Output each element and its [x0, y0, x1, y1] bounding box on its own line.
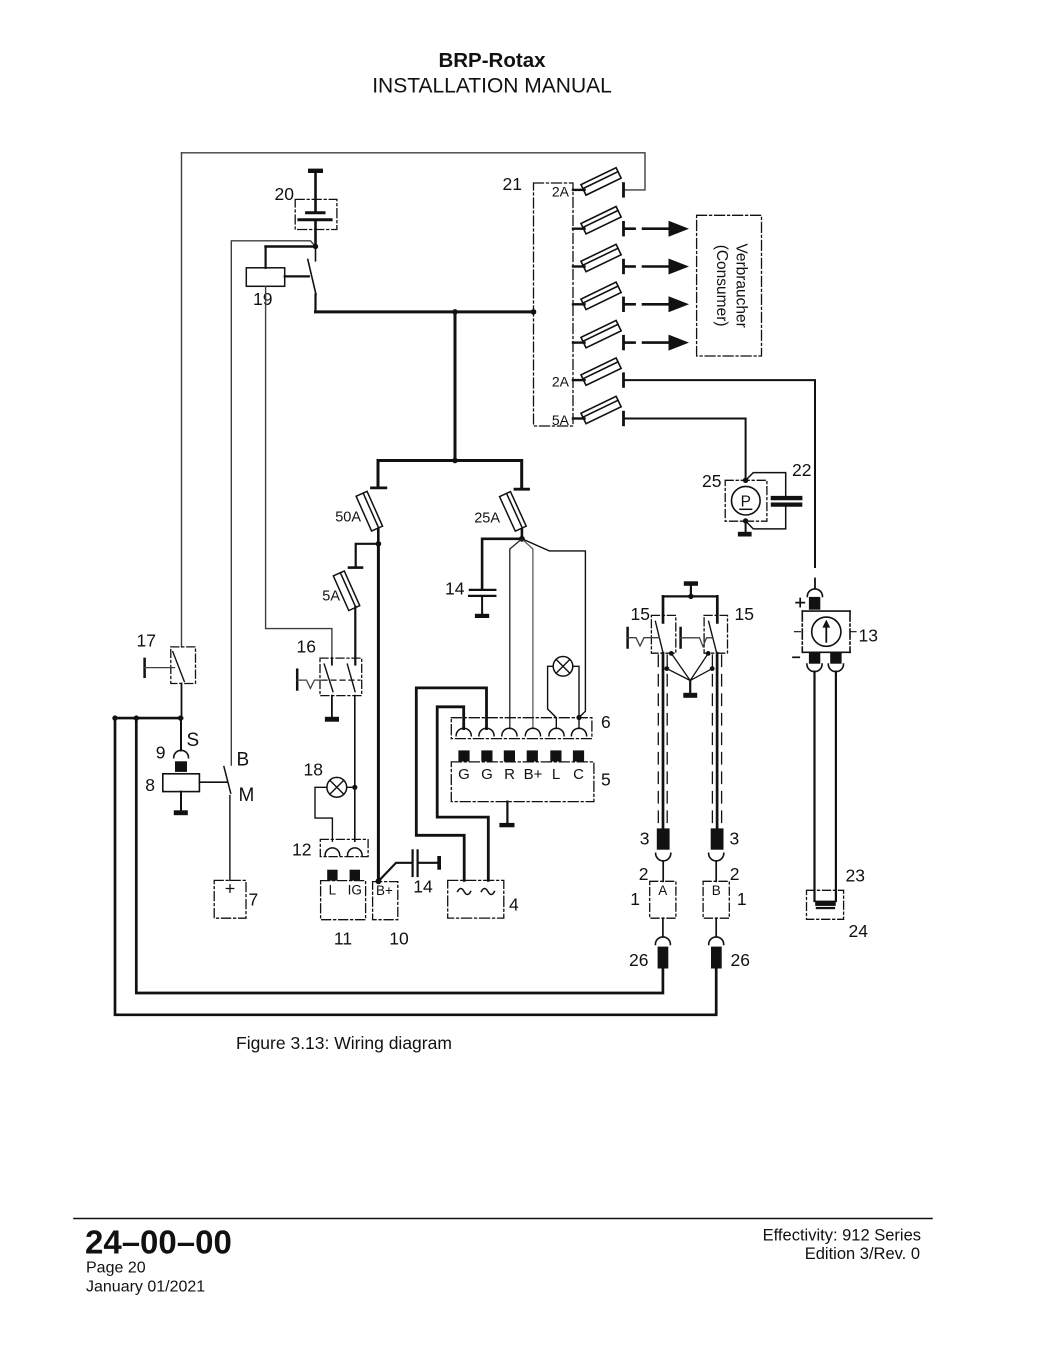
fuse F1 2A — [552, 168, 624, 200]
svg-text:2: 2 — [730, 864, 740, 884]
wire ignition top link — [663, 595, 717, 597]
ground hour meter — [738, 532, 752, 537]
svg-text:26: 26 — [731, 950, 750, 970]
label minus sensor 13 — [793, 656, 799, 658]
node ignition ground tee — [688, 594, 693, 599]
svg-text:4: 4 — [509, 895, 519, 915]
svg-text:1: 1 — [630, 889, 640, 909]
wire ignition ground stub — [690, 586, 692, 597]
sensor 13 centerline stubs — [795, 631, 858, 633]
wire socket 2 left to connector A — [662, 861, 664, 881]
svg-text:Edition 3/Rev. 0: Edition 3/Rev. 0 — [805, 1245, 920, 1263]
capacitor 14 plates — [470, 589, 495, 591]
svg-text:13: 13 — [859, 626, 878, 646]
wire shield ground stub — [689, 681, 691, 693]
fuse F7 5A — [552, 396, 624, 428]
lamp charge indicator circle — [553, 657, 573, 677]
svg-text:3: 3 — [640, 829, 650, 849]
svg-text:8: 8 — [145, 775, 155, 795]
switch 16 actuator bar — [296, 670, 299, 690]
wire dashed lead into sensor 13 — [814, 579, 816, 588]
svg-text:C: C — [573, 766, 584, 783]
battery 20 positive plate — [307, 211, 324, 214]
switch 17 dash-dot box — [171, 647, 196, 684]
sensor 13 body box — [802, 611, 850, 652]
relay 19 coil return wire to switch 16 — [266, 286, 332, 658]
svg-text:6: 6 — [601, 712, 611, 732]
svg-text:9: 9 — [156, 743, 166, 763]
svg-text:16: 16 — [297, 637, 316, 657]
wire switch 16 to connector 12 IG — [354, 696, 356, 842]
wire socket 2 right to connector B — [715, 861, 717, 881]
wire hour meter to capacitor 22 — [746, 473, 786, 496]
node distribution junction — [452, 458, 458, 464]
svg-text:24–00–00: 24–00–00 — [85, 1224, 232, 1261]
svg-text:19: 19 — [253, 289, 272, 309]
connector 12 socket contacts — [325, 848, 362, 855]
lamp 18 circle — [327, 777, 347, 797]
svg-text:Verbraucher(Consumer): Verbraucher(Consumer) — [713, 243, 750, 327]
pin 26 left — [658, 947, 669, 969]
switch 16 dash-dot box — [320, 658, 362, 696]
svg-text:A: A — [658, 883, 667, 898]
sensor 13 meter circle — [812, 617, 841, 646]
connector 6 dash-dot housing — [451, 718, 592, 739]
svg-text:5: 5 — [601, 770, 611, 790]
svg-text:M: M — [239, 785, 255, 806]
node battery minus junction — [313, 244, 318, 249]
switch 16 left blade — [324, 664, 333, 692]
hour meter 25 circle — [732, 486, 761, 515]
battery 20 negative plate — [299, 218, 331, 221]
connector 6 socket contacts — [456, 728, 586, 736]
connector 12 dash-dot housing — [320, 839, 368, 856]
sensor 13 top contact arc — [807, 589, 822, 597]
key switch blade B-M — [224, 767, 231, 794]
module 15 right actuator link — [681, 638, 712, 647]
wire connector A lower stub — [662, 918, 664, 937]
wire 5A output to switch 16 — [354, 607, 356, 665]
connector 5 dash-dot housing — [451, 762, 594, 802]
svg-text:50A: 50A — [335, 510, 361, 526]
relay 19 coil box — [246, 268, 284, 287]
wire branch to fuse 5A — [356, 544, 379, 567]
switch 16 right blade — [347, 664, 355, 692]
trim motor 24 dash-dot box — [807, 890, 844, 919]
switch 16 top left stub — [331, 658, 333, 665]
ignition module 15 right dash-dot box — [704, 615, 727, 653]
node lamp 18 junction — [352, 785, 357, 790]
svg-text:2A: 2A — [552, 374, 570, 390]
svg-text:26: 26 — [629, 950, 648, 970]
capacitor 22 plates — [773, 496, 800, 500]
sensor 13 arrow — [825, 626, 827, 642]
wire M to battery 7 — [229, 796, 231, 881]
svg-text:L: L — [329, 883, 337, 898]
wire ground bus lower — [115, 718, 716, 1015]
wire battery node to relay coil — [266, 245, 316, 248]
ground terminal above battery 20 — [308, 169, 323, 173]
footer chapter number — [85, 1224, 921, 1296]
starter 8 ground lead — [180, 792, 182, 811]
capacitor 14h terminal block — [437, 856, 441, 870]
ground shield drain — [683, 693, 697, 698]
pin 26 right — [711, 947, 722, 969]
starter 9 pin — [175, 761, 187, 772]
node shield taps — [669, 651, 674, 656]
regulator 4 dash-dot box — [448, 880, 504, 918]
svg-text:11: 11 — [334, 929, 352, 949]
battery 7 dash-dot box — [214, 880, 246, 918]
svg-text:24: 24 — [849, 921, 869, 941]
connector A dash-dot box — [650, 881, 676, 918]
svg-text:2A: 2A — [552, 183, 570, 199]
trim motor 24 bar — [815, 901, 836, 906]
node hour meter top — [743, 478, 748, 483]
capacitor 14h lead — [419, 862, 438, 864]
svg-text:R: R — [504, 766, 515, 783]
fuse 50A body — [356, 491, 382, 531]
svg-text:23: 23 — [846, 866, 865, 886]
wire right module feed — [716, 596, 719, 622]
relay 19 fixed contact stub — [315, 247, 317, 261]
contact arc above pin 26 right — [709, 937, 724, 944]
ground ignition top bar — [684, 581, 698, 586]
lamp cross — [556, 659, 570, 673]
header title — [372, 49, 612, 98]
svg-text:B+: B+ — [524, 766, 543, 783]
consumer box dash-dot — [697, 215, 762, 356]
svg-text:INSTALLATION MANUAL: INSTALLATION MANUAL — [372, 75, 612, 98]
svg-text:S: S — [187, 730, 200, 751]
relay 19 contact blade — [308, 260, 316, 295]
fuse F6 2A — [552, 358, 624, 390]
pin 3 left — [657, 828, 670, 849]
wire ground bus upper — [136, 718, 663, 993]
wire fan to connector R — [510, 539, 522, 729]
svg-text:10: 10 — [389, 929, 409, 949]
node row left — [112, 715, 117, 720]
wire to starter S — [180, 718, 182, 750]
relay 19 coil to contact link — [285, 275, 309, 277]
relay 19 coil feed — [265, 247, 267, 268]
ground switch 16 — [325, 717, 339, 722]
wire G2 to regulator — [416, 688, 486, 881]
trim motor 24 lower bar — [816, 907, 835, 909]
wire connector 5 ground lead — [506, 802, 508, 823]
fuse 25A terminal bar — [515, 488, 529, 491]
svg-text:7: 7 — [249, 890, 259, 910]
wire connector B lower stub — [715, 918, 717, 937]
connector B dash-dot box — [703, 881, 729, 918]
wire 50A output stub — [377, 529, 380, 544]
node bus to fuse block — [531, 309, 537, 315]
shield drain wires to ground — [667, 653, 712, 680]
switch 17 actuator link — [145, 667, 175, 669]
starter 8 solenoid box — [163, 774, 200, 792]
fuse F4 — [573, 282, 689, 312]
connector 5 terminal labels — [458, 766, 584, 783]
box 10 dash-dot — [373, 882, 398, 920]
wire distribution line — [378, 461, 522, 489]
wire lamp 18 right lead — [347, 786, 355, 788]
fuse 50A terminal bar — [372, 486, 386, 489]
label plus sensor 13 — [796, 599, 804, 607]
wire to capacitor 14 — [482, 539, 522, 589]
hour meter 25 dash-dot box — [725, 480, 767, 521]
sensor 13 bottom pins — [809, 652, 820, 663]
node 50A output junction — [376, 541, 382, 547]
svg-text:IG: IG — [348, 883, 362, 898]
node 25A output junction — [519, 536, 525, 542]
svg-text:15: 15 — [735, 604, 754, 624]
connector 5 pins — [458, 750, 584, 761]
svg-text:17: 17 — [137, 631, 156, 651]
wire 25A output stub — [521, 530, 524, 539]
wire main supply bus — [316, 310, 534, 313]
svg-text:B: B — [712, 883, 721, 898]
wire junction row — [115, 717, 182, 720]
wire left module feed — [662, 596, 665, 622]
fuse 5A body — [333, 571, 359, 611]
switch 16 actuator link with spring — [297, 680, 322, 688]
wire switch 17 to ground row — [181, 684, 183, 719]
wire hour meter ground stub — [745, 521, 747, 532]
node connector C junction — [576, 715, 581, 720]
svg-text:B+: B+ — [376, 883, 393, 898]
wire capacitor 22 return — [746, 507, 786, 529]
lamp 18 cross — [330, 780, 344, 794]
fuse block 21 dash-dot enclosure — [534, 183, 574, 426]
wire fuse F6 to sensor 13 — [624, 380, 815, 567]
contact arc above pin 26 left — [655, 937, 670, 944]
wire battery 20 bottom lead — [314, 220, 317, 247]
wire to ignition switch B terminal — [231, 241, 315, 765]
capacitor 14h plates — [412, 850, 414, 876]
ground capacitor 14 — [475, 614, 489, 618]
node row mid — [134, 715, 139, 720]
fuse 25A body — [500, 492, 527, 532]
svg-text:21: 21 — [503, 174, 522, 194]
footer rule — [74, 1218, 932, 1220]
regulator 4 AC symbols — [458, 889, 471, 895]
svg-text:G: G — [481, 766, 493, 783]
wire fan to lamp and connector C — [522, 539, 586, 717]
svg-text:L: L — [552, 766, 560, 783]
fuse F5 — [573, 320, 689, 350]
wire starter 8 to key switch — [199, 781, 226, 783]
node row right — [178, 715, 183, 720]
module 15 right blade — [709, 621, 717, 652]
svg-text:14: 14 — [445, 579, 465, 599]
shielded cable right shield dashes — [711, 655, 713, 827]
wire relay output — [314, 295, 316, 312]
node hour meter bottom — [743, 518, 748, 523]
svg-text:18: 18 — [304, 760, 323, 780]
wire sensor right lead down — [835, 672, 837, 901]
wire fan to connector B+ — [522, 539, 533, 729]
wire lamp 18 left loop to connector 12 — [315, 787, 332, 841]
fuse F3 — [573, 244, 689, 274]
fuse F2 — [573, 207, 689, 237]
svg-text:G: G — [458, 766, 470, 783]
socket 2 right — [709, 853, 724, 861]
wire lamp left lead to connector L — [548, 666, 557, 728]
connector 11 pins — [327, 870, 337, 881]
wire sensor left lead down — [813, 672, 815, 901]
switch 17 actuator bar — [143, 659, 146, 677]
shielded cable right core — [716, 653, 719, 828]
svg-text:2: 2 — [639, 864, 649, 884]
wire fuse F7 to hour meter 25 — [624, 419, 746, 481]
shielded cable left core — [662, 653, 665, 828]
node bus riser junction — [452, 309, 458, 315]
svg-text:5A: 5A — [552, 412, 570, 428]
shielded cable left shield dashes — [657, 655, 659, 827]
svg-text:B: B — [237, 750, 250, 771]
svg-text:Effectivity: 912 Series: Effectivity: 912 Series — [763, 1227, 921, 1245]
svg-text:Page 20: Page 20 — [86, 1260, 146, 1277]
wire riser to distribution — [454, 312, 457, 461]
svg-text:P: P — [741, 494, 751, 511]
switch 16 coupling dashed line — [322, 679, 360, 681]
svg-text:25A: 25A — [474, 511, 500, 527]
svg-text:BRP-Rotax: BRP-Rotax — [438, 49, 546, 72]
svg-text:20: 20 — [275, 184, 295, 204]
sensor 13 top pin — [809, 597, 820, 610]
battery 7 plus sign — [226, 885, 233, 892]
svg-text:1: 1 — [737, 889, 747, 909]
svg-text:25: 25 — [702, 471, 721, 491]
wire left frame down to switch 17 — [181, 153, 183, 647]
capacitor 14 ground lead — [481, 597, 483, 614]
svg-text:14: 14 — [413, 877, 433, 897]
socket 2 left — [656, 853, 671, 861]
svg-text:3: 3 — [730, 829, 740, 849]
wire to capacitor 14h — [378, 863, 411, 882]
ground starter 8 — [174, 810, 188, 815]
ignition module 15 left dash-dot box — [651, 615, 675, 653]
fuse 5A terminal bar — [349, 566, 362, 569]
wire battery 20 top lead — [314, 173, 317, 212]
wire top border frame — [182, 153, 646, 190]
module 15 left blade — [655, 621, 663, 652]
ground connector 5 — [499, 823, 514, 827]
module 15 left actuator bar — [626, 628, 629, 648]
svg-text:Figure 3.13: Wiring diagram: Figure 3.13: Wiring diagram — [236, 1033, 452, 1053]
starter 9 contact arc — [174, 750, 189, 757]
wire G1 to regulator — [437, 707, 488, 881]
svg-text:22: 22 — [792, 460, 811, 480]
switch 17 blade — [173, 652, 185, 682]
sensor 13 bottom socket arcs — [807, 664, 844, 672]
module 15 right actuator bar — [679, 628, 682, 648]
svg-text:5A: 5A — [322, 589, 340, 605]
svg-text:12: 12 — [292, 840, 311, 860]
node B+ at box 10 — [376, 878, 382, 884]
wire switch 16 left pole to ground — [331, 696, 333, 717]
battery 20 dash-dot enclosure — [295, 199, 337, 229]
box 11 dash-dot — [321, 881, 366, 920]
svg-text:January 01/2021: January 01/2021 — [86, 1279, 205, 1296]
module 15 left actuator link — [628, 638, 660, 646]
wire lamp right lead — [573, 666, 579, 728]
wire B+ feeder — [377, 544, 380, 881]
pin 3 right — [711, 828, 724, 849]
svg-text:15: 15 — [631, 604, 650, 624]
